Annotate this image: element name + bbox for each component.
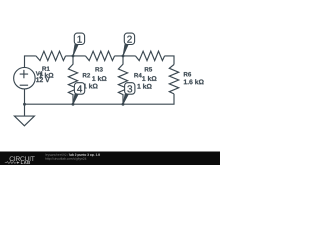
junction node 4 dot (72, 103, 75, 106)
junction node 1 dot (72, 54, 75, 57)
resistor R6 (169, 65, 178, 94)
node flag 2 (123, 33, 135, 56)
footer bar (0, 152, 220, 166)
junction ground junction dot (23, 103, 26, 106)
label R2 value (83, 83, 97, 88)
label R1 value (39, 73, 53, 78)
label R6 value (184, 79, 204, 84)
wire R3 to node 2 junction (115, 55, 136, 57)
resistor R5 (135, 51, 164, 60)
logo text LAB (21, 161, 30, 164)
wire R1 to node 1 junction (66, 55, 86, 57)
label V1 name (36, 71, 43, 75)
label R2 name (83, 73, 90, 77)
footer url (45, 157, 86, 160)
V1 plus sign (20, 70, 28, 78)
junction node 3 dot (122, 103, 125, 106)
resistor R4 (118, 56, 127, 104)
label R6 name (184, 72, 191, 76)
wire R6 bottom lead + bottom rail (25, 94, 175, 104)
CircuitLab logo text CIRCUIT (10, 156, 35, 161)
label R4 name (134, 73, 141, 77)
footer title bold part (69, 153, 99, 156)
logo arrow (17, 161, 20, 163)
wire R5 to top-right corner (165, 56, 174, 65)
label R5 value (142, 76, 156, 81)
logo resistor squiggle (5, 162, 17, 164)
label R3 name (95, 67, 102, 71)
label R1 name (42, 67, 49, 71)
node flag 1 (73, 33, 85, 56)
wire V1 bottom lead (24, 89, 26, 104)
junction node 2 dot (122, 54, 125, 57)
wire top-left corner (25, 56, 36, 68)
label R3 value (92, 76, 106, 81)
label R4 value (137, 84, 151, 89)
label R5 name (145, 67, 152, 71)
voltage source V1 circle (14, 67, 36, 89)
resistor R2 (68, 56, 77, 104)
ground (14, 104, 34, 126)
footer title user part (45, 153, 68, 156)
node flag 3 (123, 83, 135, 105)
label V1 value (36, 77, 50, 82)
node flag 4 (73, 83, 85, 105)
resistor R3 (85, 51, 114, 60)
resistor R1 (36, 51, 66, 60)
V1 minus sign (20, 84, 28, 86)
